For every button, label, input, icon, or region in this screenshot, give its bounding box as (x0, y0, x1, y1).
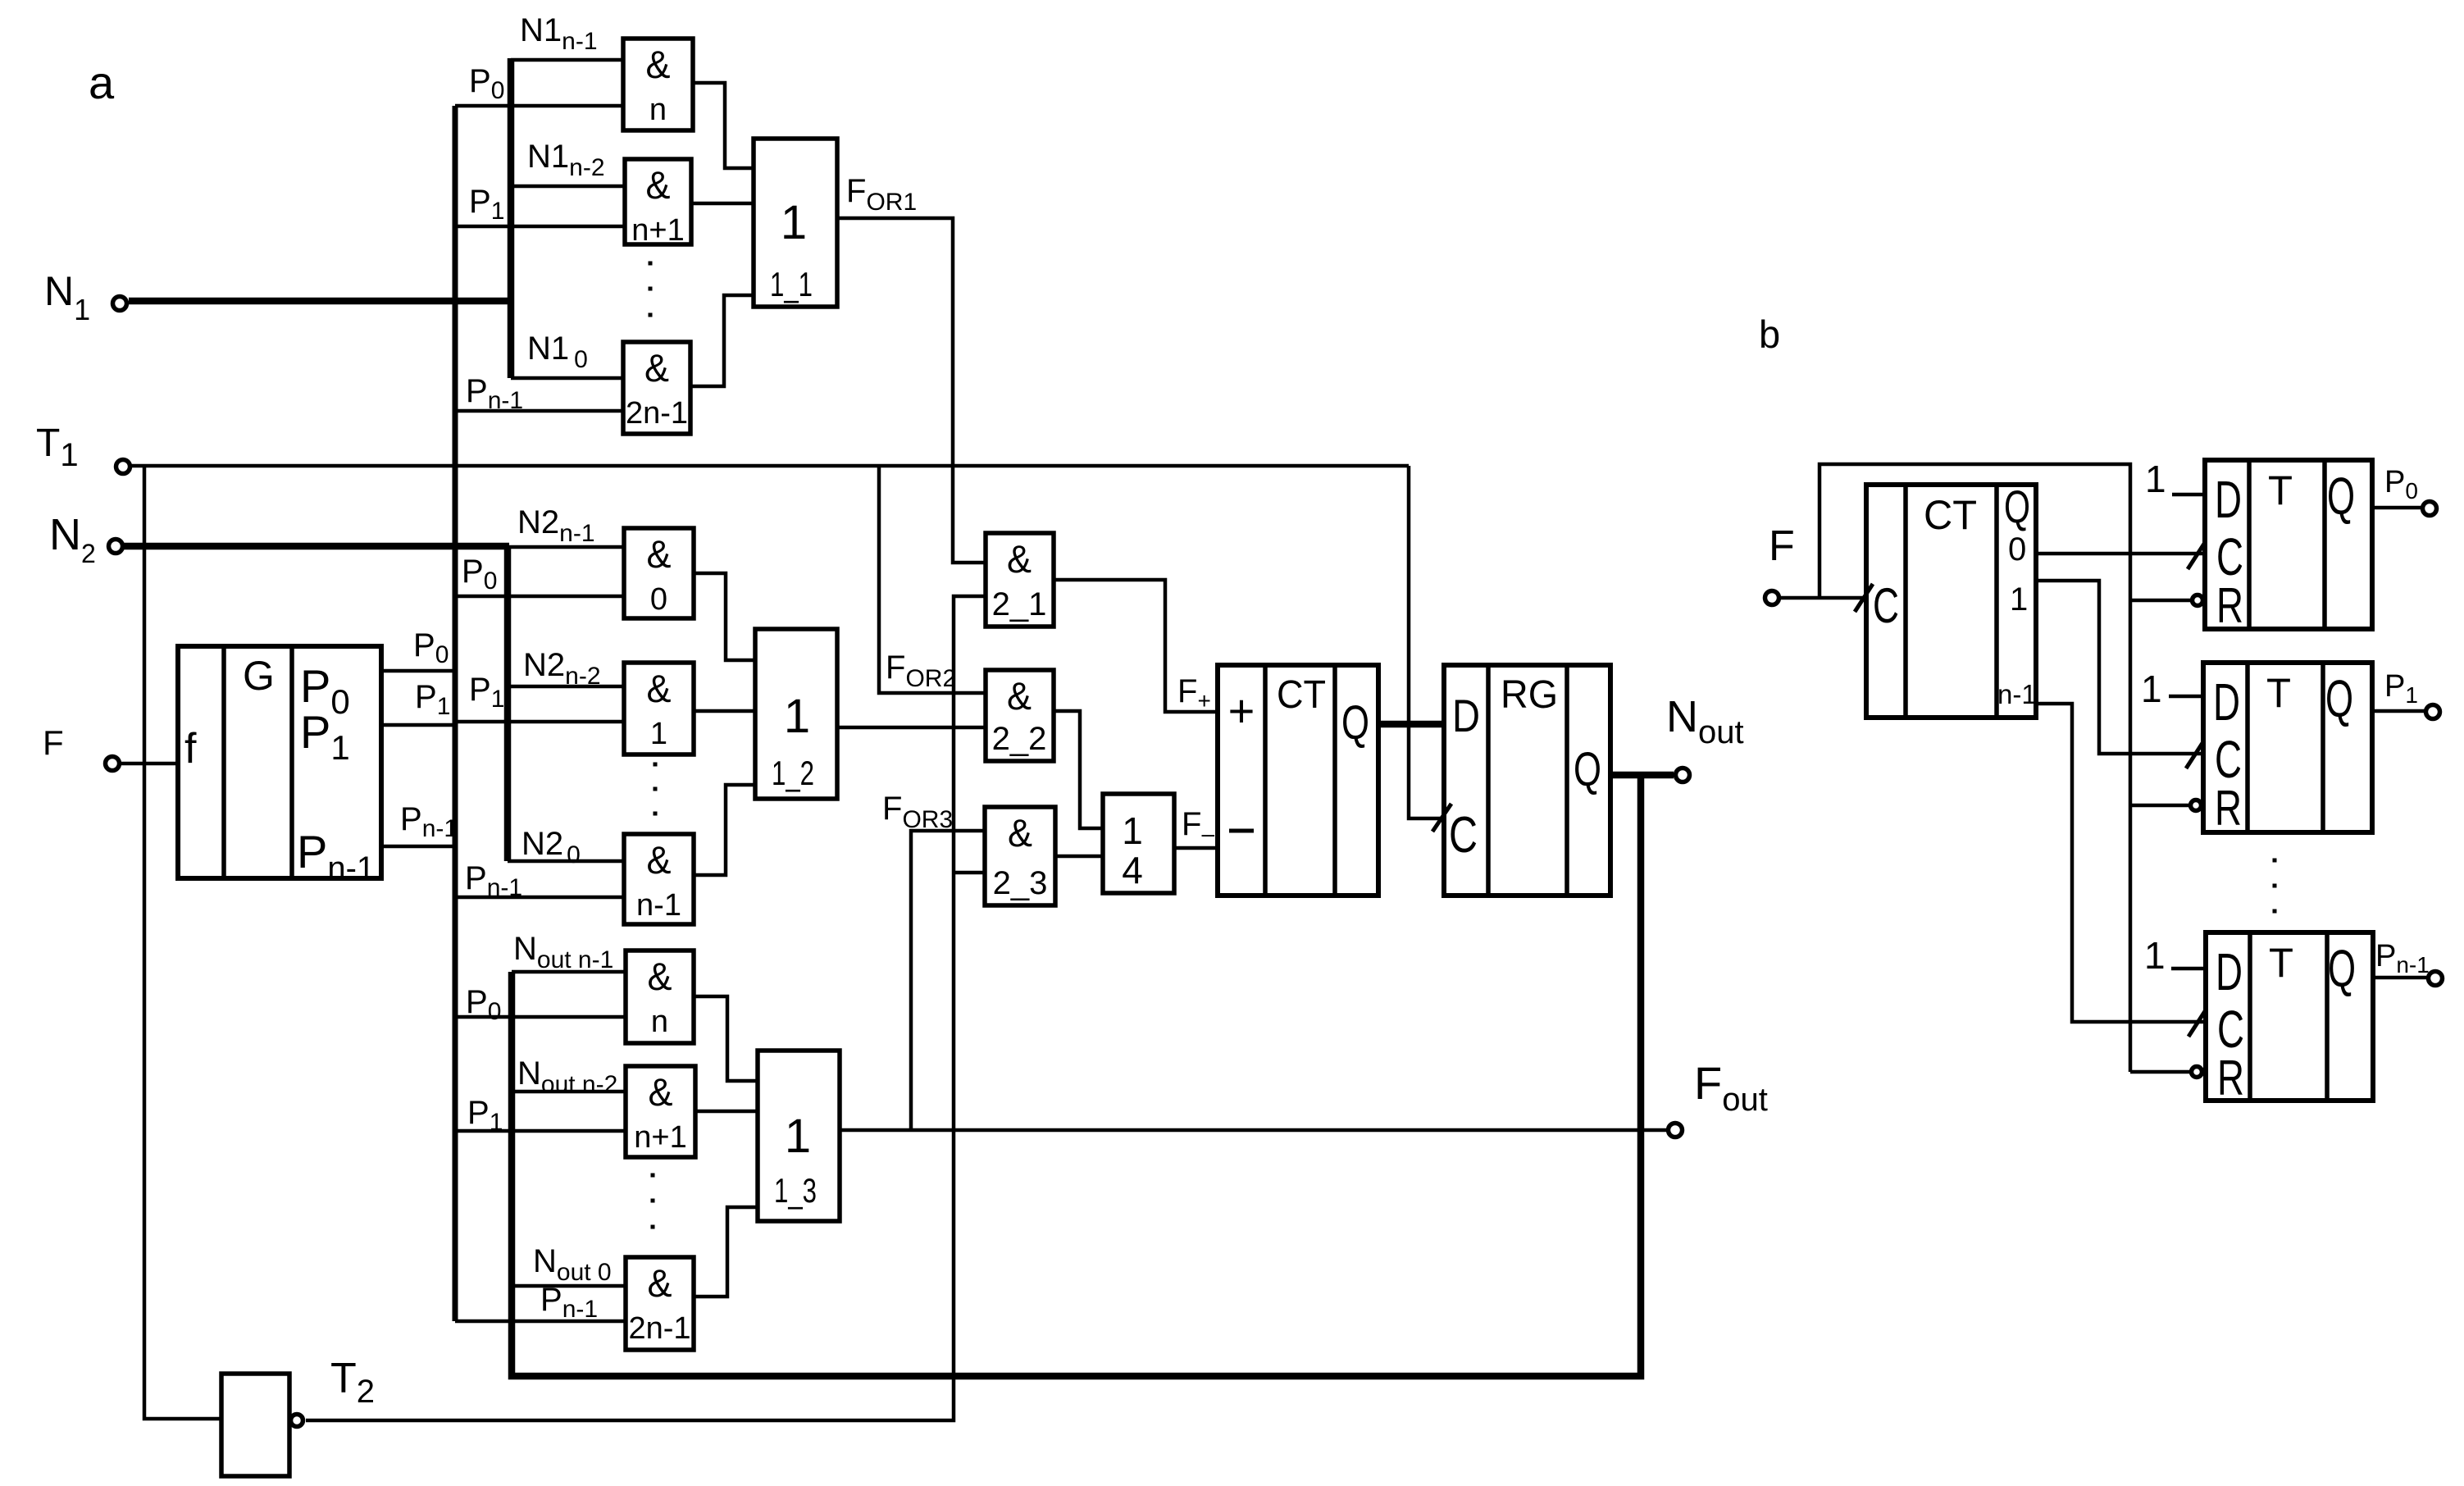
register RG divider 1 (1486, 665, 1491, 896)
svg-text:Q: Q (1574, 743, 1601, 796)
wire N2n-1 (509, 545, 624, 549)
svg-text:&: & (1007, 537, 1032, 581)
bubble FF3 R (2192, 1067, 2202, 1078)
register RG divider 2 (1564, 665, 1569, 896)
svg-text:1: 1 (2141, 668, 2162, 710)
wire FOR2 to gate 2_2 (837, 726, 986, 730)
counter CT divider 1 (1263, 665, 1268, 896)
block G divider 2 (289, 646, 294, 878)
svg-text:&: & (648, 955, 672, 998)
svg-text:R: R (2215, 781, 2242, 836)
flip-flop T2b divider 2 (2321, 663, 2325, 832)
flip-flop T3b divider 2 (2325, 932, 2330, 1101)
svg-text:&: & (1008, 811, 1032, 855)
wire G output P0 (381, 669, 455, 673)
ellipsis N2 group (654, 763, 658, 767)
svg-text:CT: CT (1924, 492, 1977, 538)
wire constant 1 to FF1 D (2172, 493, 2205, 497)
AND gate 1_2a box (625, 159, 691, 244)
bubble FF2 R (2191, 800, 2202, 811)
terminal P1 out (2426, 705, 2440, 719)
ellipsis fig b (2273, 859, 2277, 863)
svg-text:f: f (184, 725, 197, 773)
svg-text:T: T (2268, 467, 2293, 513)
svg-text:F: F (43, 723, 64, 762)
wire Nout n-1 (512, 970, 626, 974)
svg-text:T: T (2266, 670, 2291, 716)
counter CT box (1218, 665, 1378, 896)
wire constant 1 to FF2 D (2169, 695, 2203, 699)
wire T2 to gates 2_1 2_3 (306, 596, 986, 1420)
wire gate 1 output to OR 1_2 (694, 709, 755, 713)
flip-flop T3b box (2206, 932, 2373, 1101)
svg-text:1: 1 (650, 717, 667, 751)
svg-text:1_3: 1_3 (774, 1171, 817, 1210)
wire gate 2n-1 output to OR 1_3 (694, 1207, 758, 1297)
svg-text:&: & (648, 1261, 672, 1305)
flip-flop T1b divider 1 (2247, 460, 2252, 629)
counter CT pin - (1229, 829, 1254, 833)
svg-text:&: & (646, 163, 671, 207)
wire FF2 Q output (2372, 709, 2425, 713)
svg-text:C: C (1873, 578, 1899, 633)
flip-flop T1b divider 2 (2322, 460, 2327, 629)
AND gate 1_1a box (623, 39, 693, 130)
wire P0 to gate 0 (455, 595, 624, 599)
svg-text:T: T (2269, 940, 2293, 986)
wire N1n-2 (511, 185, 625, 189)
svg-text:R: R (2217, 1051, 2244, 1105)
wire F- to counter (1174, 846, 1218, 850)
wire gate 2_2 output to OR 4 (1054, 711, 1103, 828)
OR gate 1_3 box (758, 1051, 840, 1221)
svg-text:&: & (644, 346, 669, 390)
svg-text:D: D (2216, 942, 2243, 1001)
wire P1 to gate n+1 (455, 225, 625, 229)
wire N2 input (124, 543, 509, 550)
wire gate n+1 output to OR 1_1 (691, 202, 754, 206)
wire N2 0 (508, 859, 624, 864)
terminal T1 (116, 460, 130, 474)
ellipsis N1 group (649, 262, 653, 266)
wire FOR1 to gate 2_1 (837, 218, 986, 563)
svg-text:D: D (2215, 470, 2242, 529)
block G divider 1 (221, 646, 226, 878)
svg-text:2n-1: 2n-1 (626, 396, 688, 431)
wire gate n output to OR 1_1 (693, 83, 754, 168)
svg-text:a: a (89, 57, 115, 108)
block G box (178, 646, 381, 878)
wire Nout n-2 (512, 1090, 626, 1094)
wire N1 bus (508, 58, 515, 378)
wire N1n-1 (511, 58, 623, 62)
svg-text:C: C (1449, 807, 1478, 864)
dynamic input slash FF2 C (2186, 741, 2204, 768)
wire P1 to gate 1 (455, 720, 624, 724)
counter CTb divider 2 (1994, 485, 1999, 718)
svg-text:1: 1 (781, 196, 807, 249)
inverter box (221, 1374, 289, 1476)
AND gate 2_1 box (986, 533, 1054, 627)
svg-text:RG: RG (1501, 673, 1558, 717)
wire CTb Q1 to FF2 C (2036, 581, 2203, 754)
wire F to CT clock (1780, 596, 1865, 600)
wire N1 0 (511, 376, 623, 381)
dynamic input slash RG C (1432, 804, 1451, 832)
wire T2 branch to 2_3 (954, 871, 985, 875)
wire gate 2_1 output F+ (1054, 580, 1218, 712)
AND gate 3_3a box (626, 1257, 694, 1350)
wire F to G (121, 762, 178, 766)
OR gate 4 box (1103, 794, 1174, 893)
svg-text:n+1: n+1 (631, 213, 684, 248)
svg-text:Q: Q (2328, 939, 2356, 998)
terminal Fout (1669, 1124, 1683, 1137)
wire P1 to gate n+1 lower (455, 1129, 626, 1133)
wire Pn-1 to gate n-1 (455, 896, 624, 900)
svg-text:+: + (1228, 685, 1255, 736)
wire T1 branch to inverter (144, 466, 221, 1419)
wire P0 to gate n (455, 104, 623, 108)
svg-text:R: R (2216, 578, 2243, 633)
AND gate 1_3a box (623, 342, 690, 434)
svg-text:b: b (1759, 312, 1780, 356)
svg-text:0: 0 (650, 582, 667, 617)
svg-text:1: 1 (784, 690, 810, 743)
AND gate 2_2a box (624, 663, 694, 754)
dynamic input slash CT C (1855, 584, 1873, 612)
wire CTb Qn-1 to FF3 C (2036, 704, 2206, 1022)
svg-text:D: D (2213, 672, 2240, 732)
inverter bubble (291, 1415, 303, 1427)
svg-text:n: n (651, 1005, 668, 1039)
ellipsis Nout group (651, 1174, 655, 1178)
svg-text:Q: Q (2325, 669, 2353, 728)
wire FOR3 branch to gate 2_3 (911, 831, 985, 1130)
OR gate 1_1 box (754, 139, 837, 307)
svg-text:1_1: 1_1 (770, 265, 813, 303)
svg-text:Q: Q (1341, 696, 1369, 750)
wire gate 2_3 output to OR 4 (1055, 855, 1103, 859)
wire CTb Q0 to FF1 C (2036, 552, 2205, 556)
dynamic input slash FF3 C (2188, 1009, 2207, 1037)
counter CTb box (1866, 485, 2036, 718)
svg-text:n+1: n+1 (634, 1120, 686, 1155)
register RG box (1444, 665, 1610, 896)
flip-flop T2b box (2203, 663, 2372, 832)
dynamic input slash FF1 C (2188, 541, 2206, 569)
wire P0 to gate n lower (455, 1015, 626, 1019)
flip-flop T1b box (2205, 460, 2372, 629)
svg-text:1: 1 (2010, 581, 2028, 618)
svg-text:n: n (649, 93, 667, 127)
svg-text:F: F (1769, 522, 1795, 570)
wire FF1 Q output (2372, 506, 2422, 510)
svg-text:1: 1 (2144, 934, 2166, 977)
svg-text:2_1: 2_1 (992, 586, 1047, 622)
svg-text:Q: Q (2327, 467, 2355, 526)
wire N1 input (129, 298, 514, 305)
svg-text:2_2: 2_2 (992, 721, 1047, 757)
AND gate 2_2 box (986, 670, 1054, 761)
wire N2n-2 (508, 685, 624, 689)
svg-text:&: & (646, 43, 671, 86)
svg-text:n-1: n-1 (636, 888, 681, 923)
AND gate 2_3 box (985, 807, 1055, 905)
terminal Nout (1676, 768, 1690, 782)
wire gate n-1 output to OR 1_2 (694, 785, 755, 875)
AND gate 3_2a box (626, 1066, 695, 1157)
wire N2 bus (504, 546, 512, 861)
wire gate n+1 output to OR 1_3 (695, 1110, 758, 1114)
svg-text:G: G (243, 653, 275, 699)
svg-text:1: 1 (1122, 809, 1143, 852)
counter CTb divider 1 (1903, 485, 1908, 718)
svg-text:4: 4 (1122, 849, 1143, 891)
svg-text:1: 1 (785, 1110, 811, 1163)
terminal P0 out (2423, 502, 2437, 516)
wire RG Q output (1610, 772, 1674, 779)
wire gate n output to OR 1_3 (694, 996, 758, 1081)
wire F to flip-flop resets (1820, 464, 2130, 1072)
OR gate 1_2 box (755, 629, 837, 799)
svg-text:&: & (649, 1070, 673, 1114)
terminal N1 (113, 297, 127, 311)
wire Fout (840, 1128, 1668, 1133)
svg-text:0: 0 (2008, 531, 2026, 568)
flip-flop T2b divider 1 (2245, 663, 2250, 832)
flip-flop T3b divider 1 (2248, 932, 2252, 1101)
svg-text:CT: CT (1277, 673, 1326, 717)
wire to FF3 R (2130, 1070, 2189, 1074)
wire T1 to RG clock (1409, 466, 1444, 818)
wire constant 1 to FF3 D (2171, 967, 2206, 971)
wire G output Pn-1 (381, 845, 455, 849)
wire G output P1 (381, 723, 455, 727)
wire T1 (131, 464, 1409, 468)
svg-text:2n-1: 2n-1 (628, 1311, 690, 1346)
svg-text:Q: Q (2004, 481, 2030, 532)
wire to FF1 R (2130, 599, 2190, 603)
AND gate 2_1a box (624, 528, 694, 618)
wire FF3 Q output (2373, 976, 2428, 980)
wire Nout 0 (512, 1284, 626, 1288)
wire to FF2 R (2130, 804, 2188, 808)
wire CT Q to RG D (1378, 721, 1444, 728)
svg-text:D: D (1452, 690, 1480, 741)
svg-text:2_3: 2_3 (993, 865, 1048, 901)
wire gate 2n-1 output to OR 1_1 (690, 295, 754, 386)
wire gate 0 output to OR 1_2 (694, 573, 755, 660)
wire T1 branch to 2_2 (879, 466, 986, 693)
svg-text:n-1: n-1 (1997, 679, 2037, 709)
svg-text:1_2: 1_2 (772, 754, 814, 792)
svg-text:&: & (647, 838, 672, 882)
terminal Pn-1 out (2429, 972, 2443, 986)
counter CT divider 2 (1332, 665, 1337, 896)
AND gate 3_1a box (626, 950, 694, 1043)
terminal N2 (109, 540, 123, 554)
AND gate 2_3a box (624, 834, 694, 924)
bubble FF1 R (2193, 595, 2203, 606)
wire P bus (453, 106, 458, 1321)
wire Pn-1 lower (455, 1320, 626, 1324)
terminal F (106, 757, 120, 771)
svg-text:&: & (647, 532, 672, 576)
terminal F fig b (1765, 591, 1779, 605)
svg-text:&: & (1007, 674, 1032, 718)
svg-text:1: 1 (2145, 458, 2166, 500)
svg-text:&: & (647, 667, 672, 710)
wire Nout bus and feedback (512, 775, 1641, 1376)
wire Pn-1 to gate 2n-1 (455, 409, 623, 413)
